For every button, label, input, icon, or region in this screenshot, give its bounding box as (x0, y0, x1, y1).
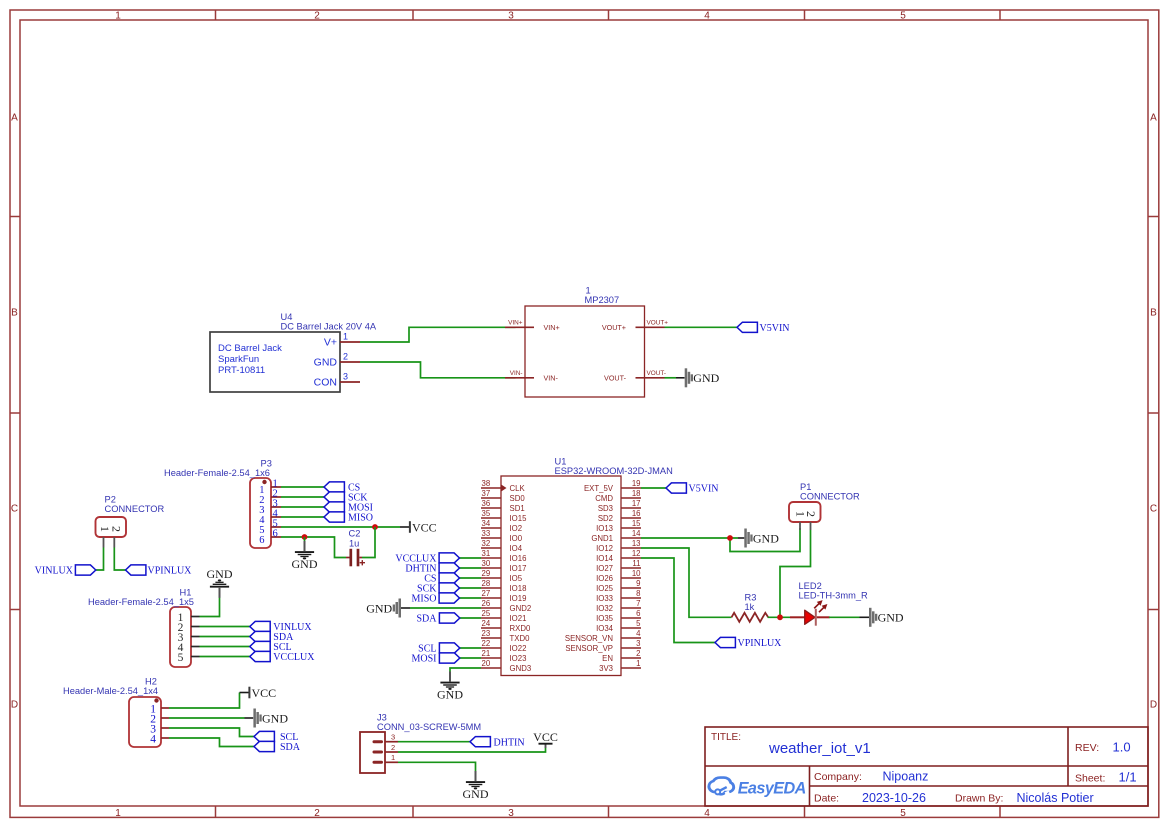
svg-text:1: 1 (586, 286, 591, 296)
svg-text:DC Barrel Jack: DC Barrel Jack (218, 343, 282, 354)
wire P3 pin4 to MISO (281, 516, 324, 518)
svg-text:VIN+: VIN+ (508, 320, 523, 327)
svg-text:2023-10-26: 2023-10-26 (862, 791, 926, 805)
net flag SDA (H2) (254, 741, 301, 753)
wire U1 EXT_5V to V5VIN (641, 487, 666, 489)
svg-text:GND: GND (207, 567, 233, 581)
svg-text:LED-TH-3mm_R: LED-TH-3mm_R (799, 591, 868, 601)
wire MP2307 VOUT- to GND (665, 377, 677, 379)
svg-text:H1: H1 (180, 588, 192, 598)
net flag SCK (U1 left) (417, 583, 459, 595)
wire P3 pin5 to VCC (281, 526, 400, 528)
svg-text:Header-Female-2.54_1x6: Header-Female-2.54_1x6 (164, 468, 270, 478)
wire H2 pin4 to SDA (169, 738, 254, 747)
wire H1 pin2 to VINLUX (200, 626, 250, 628)
svg-text:Date:: Date: (814, 792, 839, 804)
EasyEDA logo (709, 778, 806, 798)
svg-text:2: 2 (391, 743, 395, 752)
svg-text:IO13: IO13 (596, 524, 613, 533)
wire MISO to U1 (460, 597, 482, 599)
svg-text:GND1: GND1 (591, 534, 613, 543)
net flag VINLUX (H1) (250, 621, 313, 633)
junction P3 pin6 / GND (302, 534, 308, 540)
svg-text:15: 15 (632, 519, 641, 528)
svg-text:31: 31 (482, 549, 491, 558)
svg-text:SDA: SDA (280, 742, 301, 753)
svg-text:14: 14 (632, 529, 641, 538)
svg-text:3V3: 3V3 (599, 664, 613, 673)
svg-text:6: 6 (259, 535, 264, 546)
wire U1 GND1 to GND and P1 pin1 (641, 537, 738, 539)
wire U1 GND3 to ground (450, 668, 481, 672)
wire U4 GND to MP2307 VIN- (360, 362, 516, 378)
net flag VCCLUX (H1) (250, 651, 315, 663)
svg-text:RXD0: RXD0 (510, 624, 531, 633)
wire U1 IO14 to VPINLUX (641, 558, 715, 643)
ground GND below J3 (463, 771, 489, 801)
svg-text:R3: R3 (745, 593, 757, 603)
svg-text:Header-Male-2.54_1x4: Header-Male-2.54_1x4 (63, 686, 158, 696)
svg-text:IO34: IO34 (596, 624, 614, 633)
svg-text:SD1: SD1 (510, 504, 525, 513)
svg-text:1: 1 (636, 659, 640, 668)
svg-text:1.0: 1.0 (1113, 740, 1131, 755)
svg-text:IO19: IO19 (510, 594, 527, 603)
svg-text:1u: 1u (349, 539, 359, 549)
svg-text:IO15: IO15 (510, 514, 528, 523)
svg-text:GND: GND (693, 371, 719, 385)
svg-text:IO35: IO35 (596, 614, 614, 623)
net flag SCL (U1 left) (418, 643, 460, 655)
wire P3 pin3 to MOSI (281, 506, 324, 508)
net flag SDA (H1) (250, 631, 294, 643)
wire P3 pin2 to SCK (281, 496, 324, 498)
ground GND at U1 GND1 (744, 529, 779, 548)
wire VCC node down to C2 right plate (362, 527, 375, 558)
svg-text:GND: GND (314, 357, 338, 369)
svg-text:IO14: IO14 (596, 554, 614, 563)
svg-text:8: 8 (636, 589, 640, 598)
wire H1 pin4 to SCL (200, 646, 250, 648)
wire DHTIN to U1 (460, 567, 482, 569)
wire SCK to U1 (460, 587, 482, 589)
svg-text:3: 3 (508, 11, 514, 22)
svg-text:SD2: SD2 (598, 514, 613, 523)
svg-text:GND2: GND2 (510, 604, 532, 613)
svg-text:TITLE:: TITLE: (711, 732, 741, 743)
svg-text:IO0: IO0 (510, 534, 523, 543)
svg-text:22: 22 (482, 639, 491, 648)
svg-text:6: 6 (273, 528, 278, 539)
wire H1 pin1 to GND (200, 597, 220, 616)
svg-text:CONNECTOR: CONNECTOR (105, 504, 165, 514)
svg-text:MISO: MISO (411, 594, 436, 605)
svg-text:U4: U4 (281, 312, 293, 322)
svg-text:IO4: IO4 (510, 544, 523, 553)
svg-text:5: 5 (636, 619, 641, 628)
svg-text:VCC: VCC (252, 686, 277, 700)
net flag MOSI (U1 left) (411, 653, 459, 665)
svg-text:1: 1 (343, 332, 348, 342)
connector P1 (789, 482, 860, 530)
ground GND at H2 pin2 (253, 709, 288, 728)
svg-text:VOUT+: VOUT+ (647, 320, 669, 327)
svg-text:GND: GND (437, 688, 463, 702)
svg-text:4: 4 (150, 733, 156, 745)
wire MOSI to U1 (460, 657, 481, 659)
svg-text:VIN+: VIN+ (544, 323, 560, 332)
svg-text:VCC: VCC (533, 730, 558, 744)
svg-text:2: 2 (314, 11, 320, 22)
svg-text:H2: H2 (145, 677, 157, 687)
svg-text:GND: GND (753, 531, 779, 545)
ground GND below U1 GND3 (437, 672, 463, 702)
svg-text:12: 12 (632, 549, 641, 558)
net flag DHTIN (U1 left) (405, 563, 459, 575)
svg-text:23: 23 (482, 629, 491, 638)
svg-text:SparkFun: SparkFun (218, 354, 259, 365)
connector J3 CONN_03-SCREW-5MM (360, 713, 481, 774)
net flag VINLUX (P2) (35, 565, 96, 577)
svg-text:2: 2 (804, 511, 818, 517)
svg-text:GND: GND (366, 601, 392, 615)
svg-text:3: 3 (343, 372, 348, 382)
svg-text:2: 2 (314, 808, 320, 819)
wire P2 pin1 to VINLUX (96, 548, 104, 571)
net flag V5VIN (MP2307) (737, 322, 790, 334)
svg-text:GND: GND (463, 787, 489, 801)
wire MP2307 VOUT+ to V5VIN (665, 326, 738, 328)
svg-text:V5VIN: V5VIN (689, 484, 719, 495)
svg-text:Sheet:: Sheet: (1075, 773, 1105, 785)
svg-text:D: D (1150, 700, 1157, 711)
net flag SCK (P3) (324, 492, 368, 504)
svg-text:EasyEDA: EasyEDA (738, 779, 806, 797)
svg-text:7: 7 (636, 599, 640, 608)
wire H2 pin3 to SCL (169, 728, 254, 737)
svg-text:38: 38 (482, 479, 491, 488)
power flag VCC (H2 pin1) (240, 686, 277, 700)
svg-text:P1: P1 (800, 482, 811, 492)
svg-text:weather_iot_v1: weather_iot_v1 (768, 740, 871, 757)
power flag VCC (J3 pin2, vertical) (533, 730, 558, 748)
svg-text:SD0: SD0 (510, 494, 526, 503)
svg-text:B: B (11, 308, 18, 319)
wire VCCLUX to U1 (460, 557, 482, 559)
svg-text:3: 3 (508, 808, 514, 819)
wire LED2 to GND (829, 616, 860, 618)
svg-text:GND: GND (292, 557, 318, 571)
svg-text:37: 37 (482, 489, 491, 498)
svg-text:35: 35 (482, 509, 491, 518)
net flag MISO (P3) (324, 512, 373, 524)
title block (705, 727, 1148, 806)
svg-text:GND3: GND3 (510, 664, 532, 673)
svg-text:V+: V+ (324, 337, 337, 349)
svg-text:1k: 1k (745, 602, 755, 612)
svg-text:VCC: VCC (412, 520, 437, 534)
svg-text:D: D (11, 700, 18, 711)
wire R3 to LED2 (768, 616, 790, 618)
svg-text:VIN-: VIN- (544, 373, 559, 382)
svg-text:IO25: IO25 (596, 584, 614, 593)
wire H2 pin1 to VCC (169, 693, 240, 709)
net flag CS (P3) (324, 482, 360, 494)
wire CS to U1 (460, 577, 482, 579)
svg-text:ESP32-WROOM-32D-JMAN: ESP32-WROOM-32D-JMAN (555, 466, 673, 476)
svg-text:IO22: IO22 (510, 644, 527, 653)
svg-text:Header-Female-2.54_1x5: Header-Female-2.54_1x5 (88, 597, 194, 607)
svg-text:IO12: IO12 (596, 544, 613, 553)
svg-text:SDA: SDA (416, 614, 437, 625)
svg-text:10: 10 (632, 569, 641, 578)
svg-text:19: 19 (632, 479, 641, 488)
svg-text:P2: P2 (105, 495, 116, 505)
wire P3 pin6 to C2 left plate (281, 537, 346, 558)
svg-text:MP2307: MP2307 (585, 295, 620, 305)
svg-text:IO27: IO27 (596, 564, 613, 573)
svg-text:Drawn By:: Drawn By: (955, 792, 1003, 804)
svg-text:21: 21 (482, 649, 491, 658)
net flag VCCLUX (U1 left) (395, 553, 459, 565)
svg-text:16: 16 (632, 509, 641, 518)
svg-text:3: 3 (636, 639, 640, 648)
svg-text:Nicolás Potier: Nicolás Potier (1017, 791, 1094, 805)
svg-text:5: 5 (900, 11, 906, 22)
svg-text:IO33: IO33 (596, 594, 613, 603)
wire J3 pin1 to GND (398, 762, 476, 771)
svg-text:3: 3 (391, 733, 395, 742)
svg-text:34: 34 (482, 519, 491, 528)
svg-text:1: 1 (391, 753, 395, 762)
ground GND at P3 pin6 (304, 537, 306, 542)
svg-text:MOSI: MOSI (411, 654, 436, 665)
svg-text:CON: CON (314, 377, 337, 389)
svg-text:U1: U1 (555, 457, 567, 467)
svg-text:VPINLUX: VPINLUX (148, 566, 193, 577)
net flag SCL (H2) (254, 731, 298, 743)
svg-text:IO21: IO21 (510, 614, 527, 623)
svg-text:30: 30 (482, 559, 491, 568)
net flag SCL (H1) (250, 641, 292, 653)
svg-text:28: 28 (482, 579, 491, 588)
svg-text:VINLUX: VINLUX (35, 566, 74, 577)
svg-text:Company:: Company: (814, 771, 862, 783)
svg-text:PRT-10811: PRT-10811 (218, 365, 265, 376)
svg-text:VOUT+: VOUT+ (602, 323, 626, 332)
svg-text:SENSOR_VN: SENSOR_VN (565, 634, 613, 643)
svg-text:GND: GND (878, 611, 904, 625)
wire P2 pin2 to VPINLUX (114, 548, 125, 571)
svg-text:36: 36 (482, 499, 491, 508)
ground GND above H1 (207, 567, 233, 598)
svg-text:A: A (1150, 113, 1157, 124)
net flag SDA (U1 left) (416, 613, 459, 625)
svg-text:TXD0: TXD0 (510, 634, 531, 643)
svg-text:CONN_03-SCREW-5MM: CONN_03-SCREW-5MM (377, 722, 481, 732)
net flag MOSI (P3) (324, 502, 373, 514)
svg-text:VCCLUX: VCCLUX (273, 652, 315, 663)
svg-text:1: 1 (115, 808, 121, 819)
svg-text:REV:: REV: (1075, 742, 1099, 754)
wire P3 pin1 to CS (281, 486, 324, 488)
svg-text:2: 2 (636, 649, 640, 658)
svg-text:DHTIN: DHTIN (494, 737, 525, 748)
net flag VPINLUX (P2) (126, 565, 193, 577)
svg-text:GND: GND (262, 711, 288, 725)
svg-text:V5VIN: V5VIN (760, 323, 790, 334)
svg-text:SD3: SD3 (598, 504, 613, 513)
wire P1 pin2 to LED node (780, 530, 811, 617)
resistor R3 1k (732, 593, 769, 622)
svg-text:26: 26 (482, 599, 491, 608)
svg-text:17: 17 (632, 499, 641, 508)
svg-text:CLK: CLK (510, 484, 526, 493)
capacitor C2 1u (346, 529, 365, 567)
wire J3 pin3 to DHTIN (398, 741, 470, 743)
regulator 1 MP2307 (505, 286, 668, 398)
svg-text:29: 29 (482, 569, 491, 578)
connector P3 Header-Female-2.54_1x6 (164, 459, 281, 549)
svg-text:EXT_5V: EXT_5V (584, 484, 614, 493)
ground GND at MP2307 VOUT- (685, 368, 720, 387)
svg-text:4: 4 (636, 629, 641, 638)
connector U4 DC Barrel Jack (210, 312, 377, 392)
led LED2 LED-TH-3mm_R (790, 581, 868, 626)
net flag DHTIN (J3) (470, 737, 525, 749)
svg-text:5: 5 (900, 808, 906, 819)
svg-text:24: 24 (482, 619, 491, 628)
net flag V5VIN (U1) (666, 483, 719, 495)
svg-text:A: A (11, 113, 18, 124)
net flag VPINLUX (U1) (715, 637, 782, 649)
ground GND at U1 GND2 (410, 607, 481, 609)
svg-text:2: 2 (343, 352, 348, 362)
wire U4 V+ to MP2307 VIN+ (360, 327, 516, 342)
svg-text:4: 4 (704, 11, 710, 22)
svg-text:13: 13 (632, 539, 641, 548)
svg-text:IO5: IO5 (510, 574, 523, 583)
svg-text:EN: EN (602, 654, 613, 663)
wire H1 pin3 to SDA (200, 636, 250, 638)
svg-text:9: 9 (636, 579, 640, 588)
svg-text:6: 6 (636, 609, 640, 618)
wire H2 pin2 to GND (169, 717, 245, 719)
svg-text:27: 27 (482, 589, 491, 598)
svg-text:IO16: IO16 (510, 554, 527, 563)
svg-text:5: 5 (178, 652, 184, 664)
svg-text:VPINLUX: VPINLUX (738, 638, 783, 649)
svg-text:IO17: IO17 (510, 564, 527, 573)
svg-text:LED2: LED2 (799, 581, 822, 591)
svg-text:MISO: MISO (348, 513, 373, 524)
power flag VCC (P3 pin5) (400, 520, 437, 534)
svg-text:25: 25 (482, 609, 491, 618)
svg-text:IO23: IO23 (510, 654, 527, 663)
svg-text:IO18: IO18 (510, 584, 527, 593)
mcu U1 ESP32-WROOM-32D-JMAN (481, 457, 673, 676)
connector H2 Header-Male-2.54_1x4 (63, 677, 169, 748)
junction GND1 (727, 535, 733, 541)
wire SCL to U1 (460, 647, 481, 649)
svg-text:18: 18 (632, 489, 641, 498)
net flag CS (U1 left) (424, 573, 459, 585)
svg-text:P3: P3 (261, 459, 272, 469)
svg-text:Nipoanz: Nipoanz (883, 770, 929, 784)
wire H1 pin5 to VCCLUX (200, 656, 250, 658)
svg-text:20: 20 (482, 659, 491, 668)
svg-text:C2: C2 (349, 529, 361, 539)
wire SDA to U1 (460, 617, 481, 619)
connector H1 Header-Female-2.54_1x5 (88, 588, 200, 668)
ground GND at LED2 (869, 608, 904, 627)
svg-text:CMD: CMD (595, 494, 613, 503)
svg-text:11: 11 (632, 559, 640, 568)
svg-text:33: 33 (482, 529, 491, 538)
svg-text:1/1: 1/1 (1119, 770, 1137, 785)
svg-text:1: 1 (115, 11, 121, 22)
svg-text:B: B (1150, 308, 1157, 319)
junction R3/LED/P1 (777, 614, 783, 620)
svg-text:IO32: IO32 (596, 604, 613, 613)
svg-text:4: 4 (704, 808, 710, 819)
svg-text:32: 32 (482, 539, 491, 548)
svg-text:CONNECTOR: CONNECTOR (800, 492, 860, 502)
connector P2 (96, 495, 165, 548)
svg-text:IO2: IO2 (510, 524, 523, 533)
svg-text:DC Barrel Jack 20V 4A: DC Barrel Jack 20V 4A (281, 322, 377, 332)
svg-text:J3: J3 (377, 713, 387, 723)
net flag MISO (U1 left) (411, 593, 459, 605)
wire J3 pin2 to VCC (398, 748, 546, 752)
svg-text:SENSOR_VP: SENSOR_VP (565, 644, 613, 653)
svg-text:2: 2 (109, 526, 123, 532)
svg-text:IO26: IO26 (596, 574, 613, 583)
svg-text:VOUT-: VOUT- (604, 373, 627, 382)
wire U1 IO12 to R3 (641, 548, 732, 617)
svg-text:C: C (11, 504, 18, 515)
junction VCC/C2 (372, 524, 378, 530)
svg-text:VIN-: VIN- (510, 370, 523, 377)
svg-text:VOUT-: VOUT- (647, 370, 667, 377)
svg-text:C: C (1150, 504, 1157, 515)
